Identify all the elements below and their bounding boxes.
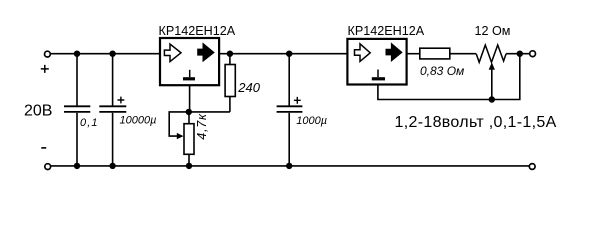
R4 wiper arrow (from node B up) (491, 69, 493, 100)
capacitor C1 0,1 (64, 54, 90, 166)
svg-text:0,83 Ом: 0,83 Ом (420, 64, 464, 78)
wire R1 bottom to node A (189, 111, 230, 113)
output terminal + (top-right) (530, 51, 536, 57)
label - (input polarity) (41, 147, 46, 149)
junction dot top rail at C1 (74, 51, 80, 57)
wire top rail: U1 out to U2 in (219, 53, 348, 55)
potentiometer R2 4,7к (184, 112, 194, 166)
junction dot bottom rail at C2 (109, 163, 115, 169)
capacitor C3 1000µ (277, 54, 303, 166)
U1 common pin symbol (189, 70, 191, 77)
svg-text:12 Ом: 12 Ом (475, 24, 511, 38)
wire output junction down to node B (492, 54, 520, 100)
wire U1 adj pin down (189, 85, 191, 112)
junction dot top rail at output (517, 51, 523, 57)
regulator U1 КР142ЕН12А box (160, 38, 219, 85)
svg-text:20В: 20В (24, 102, 52, 119)
R2 wiper loop wire (169, 112, 189, 136)
resistor R4 12 Ом zigzag (476, 45, 506, 62)
junction dot bottom rail at R2 (186, 163, 192, 169)
input terminal - (bottom-left) (45, 164, 51, 170)
resistor R3 0,83 Ом (420, 48, 450, 59)
junction dot top rail at C2 (109, 51, 115, 57)
U1 output filled arrow (198, 43, 214, 61)
junction dot bottom rail at C1 (74, 163, 80, 169)
regulator U2 КР142ЕН12А box (347, 39, 406, 85)
label + (input polarity) (41, 65, 49, 73)
junction dot top rail at C3 (286, 51, 292, 57)
U1 input open arrow (164, 44, 181, 62)
wire top rail: input to U1 (50, 53, 160, 55)
svg-text:1,2-18вольт ,0,1-1,5А: 1,2-18вольт ,0,1-1,5А (395, 114, 557, 131)
svg-text:1000µ: 1000µ (296, 115, 327, 127)
wire U2 adj pin to node B (378, 84, 492, 100)
svg-text:КР142ЕН12А: КР142ЕН12А (159, 24, 236, 38)
wire: U2 out to R 0,83 (407, 53, 420, 55)
resistor R1 240 (225, 54, 235, 112)
R2 wiper arrowhead (177, 133, 184, 139)
wire bottom rail (51, 165, 530, 167)
output terminal - (bottom-right) (529, 164, 535, 170)
wire: R 0,83 to R 12 (450, 53, 476, 55)
svg-text:10000µ: 10000µ (120, 115, 157, 127)
node B junction dot (489, 96, 495, 102)
node A junction dot (adj net) (186, 109, 192, 115)
wire: R 12 to output terminal (506, 53, 530, 55)
input terminal + (top-left) (45, 51, 51, 57)
svg-text:4,7к: 4,7к (195, 113, 209, 140)
U2 output filled arrow (386, 43, 402, 61)
junction dot bottom rail at C3 (286, 163, 292, 169)
svg-text:240: 240 (237, 80, 260, 95)
capacitor C2 10000µ (99, 54, 126, 166)
junction dot top rail at R1 (227, 51, 233, 57)
svg-text:КР142ЕН12А: КР142ЕН12А (348, 24, 425, 38)
U2 common pin symbol (377, 70, 379, 78)
svg-text:0,1: 0,1 (80, 117, 99, 129)
U2 input open arrow (355, 44, 371, 62)
